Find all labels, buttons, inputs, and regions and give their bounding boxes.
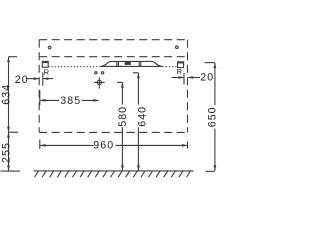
left bracket R1: [42, 61, 48, 67]
dim 634 line: [9, 57, 19, 133]
arrow 960 left: [40, 144, 46, 147]
tap hole: [125, 62, 130, 65]
arrow 634 down: [7, 127, 10, 133]
countertop dashed line: [39, 56, 187, 58]
left screw circle: [48, 46, 51, 49]
arrow 20 right left-pointing: [188, 76, 194, 79]
arrow 634 up: [7, 57, 10, 63]
svg-text:634: 634: [1, 84, 13, 105]
drain crosshair: [94, 77, 105, 88]
svg-text:650: 650: [206, 106, 218, 127]
svg-text:R: R: [44, 67, 50, 76]
arrow 580 down: [121, 165, 124, 171]
dim 640 line: [133, 73, 138, 171]
basin fixing tick left: [117, 62, 119, 66]
arrow 20 right right-pointing: [179, 76, 185, 79]
arrow 255 up: [7, 132, 10, 138]
svg-text:580: 580: [117, 106, 129, 127]
svg-text:385: 385: [60, 95, 81, 107]
overflow hole left: [95, 72, 97, 74]
dim 20 right line: [172, 73, 201, 85]
cabinet dashed outline: [39, 40, 187, 133]
svg-text:20: 20: [200, 72, 214, 84]
svg-text:255: 255: [1, 142, 13, 163]
dim 580 line: [117, 82, 122, 171]
dim 960 line: [40, 140, 188, 150]
arrow 255 down: [7, 165, 10, 171]
dim 255 line: [1, 132, 21, 171]
arrow 650 up: [214, 63, 217, 69]
svg-text:20: 20: [15, 74, 29, 86]
basin fixing tick right: [139, 62, 141, 66]
floor hatching: [35, 171, 191, 177]
dim 650 line: [205, 63, 215, 172]
right bracket R2: [178, 62, 184, 68]
right screw circle: [176, 46, 179, 49]
floor line: [34, 170, 194, 172]
arrow 385 left: [40, 99, 46, 102]
arrow 960 right: [182, 144, 188, 147]
arrow 650 down: [214, 165, 217, 171]
rail dotted line: [48, 66, 100, 68]
arrow 640 down: [137, 165, 140, 171]
washbasin profile: [100, 61, 162, 66]
arrow 20 left right-pointing: [34, 77, 40, 80]
arrow 385 right: [94, 99, 100, 102]
arrow 20 left left-pointing: [43, 77, 49, 80]
arrow 580 up: [121, 82, 124, 88]
overflow hole right: [101, 72, 103, 74]
svg-text:640: 640: [136, 106, 148, 127]
svg-text:R: R: [177, 67, 183, 76]
svg-text:960: 960: [93, 140, 114, 152]
dim 385 line: [40, 90, 99, 105]
dim 20 left line: [27, 72, 54, 86]
arrow 640 up: [137, 73, 140, 79]
